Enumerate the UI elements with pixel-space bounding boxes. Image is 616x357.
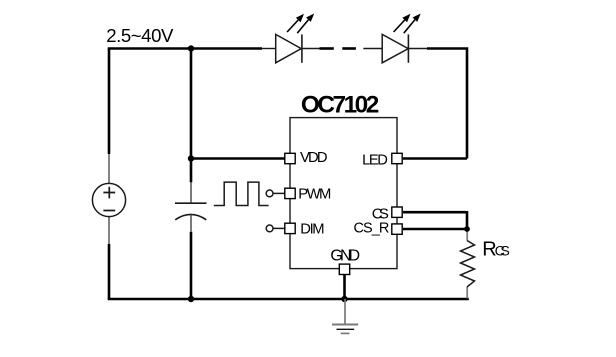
svg-text:PWM: PWM xyxy=(298,187,331,203)
svg-text:CS_R: CS_R xyxy=(354,220,390,236)
svg-text:CS: CS xyxy=(495,243,510,259)
svg-text:OC7102: OC7102 xyxy=(301,92,379,119)
svg-text:2.5~40V: 2.5~40V xyxy=(106,25,174,46)
svg-text:VDD: VDD xyxy=(300,150,328,166)
svg-text:LED: LED xyxy=(362,153,388,169)
svg-text:DIM: DIM xyxy=(300,221,324,237)
svg-text:GND: GND xyxy=(330,248,360,265)
